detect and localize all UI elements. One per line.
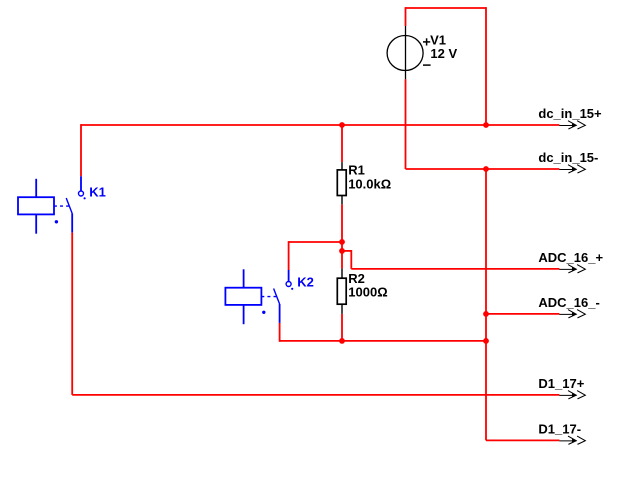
node dc_in_15+ pin arrow [559,121,585,129]
relay K1 switch [55,176,86,232]
wire V1 minus lead vertical [405,79,407,169]
resistor R1 [337,162,346,204]
junction bottom line on minus bus [483,338,489,344]
relay K2 link dashed [261,296,276,298]
junction K2 top on divider [339,239,345,245]
wire ADC_16_+ horizontal [351,268,559,270]
wire R1 top lead [341,125,343,162]
node D1_17+ pin arrow [559,391,585,399]
wire dc_in_15- horizontal [406,168,560,170]
relay K2 coil [225,269,261,324]
svg-text:K2: K2 [297,275,314,290]
wire divider tap step horizontal [342,250,351,252]
svg-text:R1: R1 [348,162,365,177]
wire V1 minus bus vertical [485,169,487,440]
wire V1 plus down right side [485,7,487,125]
junction R1 top on dc_in_15+ [339,122,345,128]
wire D1_17- horizontal [486,439,559,441]
svg-text:dc_in_15-: dc_in_15- [538,150,598,165]
node ADC_16_+ pin arrow [559,265,585,273]
wire K2 switch top lead [288,241,290,270]
svg-text:ADC_16_+: ADC_16_+ [538,250,603,265]
junction dc_in_15- corner [483,166,489,172]
relay K1 link dashed [54,205,69,207]
voltage source V1 [387,26,431,79]
wire K2 top horizontal [289,241,342,243]
relay K1 coil [18,179,54,234]
svg-text:12 V: 12 V [430,46,457,61]
node D1_17- pin arrow [559,436,585,444]
wire K1 switch bottom vertical [71,232,73,395]
svg-text:ADC_16_-: ADC_16_- [538,295,599,310]
wire divider tap step vertical [350,250,352,269]
junction ADC tap on divider [339,248,345,254]
wire R1 bottom to R2 top [341,204,343,268]
junction V1 plus on dc_in_15+ [483,122,489,128]
svg-text:1000Ω: 1000Ω [348,285,387,300]
wire K1 switch top lead [80,124,82,176]
junction ADC_16_- on minus bus [483,311,489,317]
svg-text:D1_17+: D1_17+ [538,376,584,391]
wire D1_17+ horizontal [72,394,559,396]
svg-text:dc_in_15+: dc_in_15+ [538,106,602,121]
node dc_in_15- pin arrow [559,165,585,173]
wire R2 bottom lead [341,314,343,341]
svg-text:D1_17-: D1_17- [538,421,581,436]
wire V1 plus top horizontal [406,7,487,9]
wire K2 switch bottom lead [279,323,281,342]
wire dc_in_15+ main horizontal [81,124,559,126]
resistor R2 [337,269,346,314]
junction R2 bottom [339,338,345,344]
node ADC_16_- pin arrow [559,310,585,318]
wire R2 bottom horizontal [280,340,486,342]
wire V1 plus lead vertical [405,7,407,26]
svg-text:10.0kΩ: 10.0kΩ [348,177,391,192]
relay K2 switch [262,270,293,323]
svg-text:K1: K1 [89,184,106,199]
wire ADC_16_- horizontal [486,313,559,315]
